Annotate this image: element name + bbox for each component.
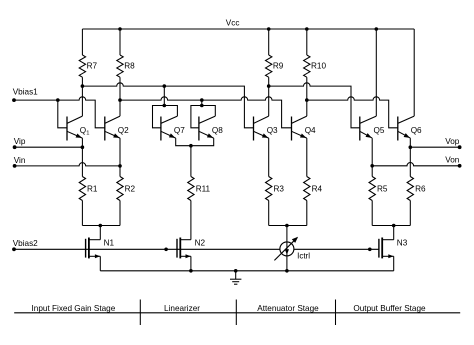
wire R6 bottom: [409, 201, 411, 226]
power rail Vcc wire: [82, 28, 414, 30]
junction R5R6 to N3 drain: [392, 224, 396, 228]
svg-text:R9: R9: [273, 62, 284, 71]
junction node B at Q8: [200, 98, 204, 102]
label Attenuator Stage: [257, 304, 319, 313]
junction node A at Q7: [163, 84, 167, 88]
stage divider baseline: [14, 312, 460, 314]
junction Vop at Q6 emitter: [409, 145, 413, 149]
wire Vip to Q1 emitter: [15, 146, 83, 148]
wire Vop from Q6 emitter: [410, 146, 459, 148]
svg-text:Linearizer: Linearizer: [164, 304, 200, 313]
svg-text:R7: R7: [87, 62, 98, 71]
wire Q2 collector: [119, 100, 121, 116]
svg-text:Q8: Q8: [212, 126, 223, 135]
transistor Q5: [360, 116, 385, 140]
wire Vcc to R7: [81, 29, 83, 55]
junction Ictrl at common bus: [285, 269, 289, 273]
transistor Q8: [199, 116, 223, 140]
svg-text:Attenuator Stage: Attenuator Stage: [257, 304, 319, 313]
terminal dot Vop: [458, 145, 462, 149]
wire Q6 emitter to R6: [409, 138, 411, 176]
wire node B bus (R8/Q2 collector to Q4 base): [120, 97, 292, 128]
svg-text:Vcc: Vcc: [226, 19, 240, 28]
svg-text:R8: R8: [124, 62, 135, 71]
wire node A bus (R7/Q1 collector to Q3 base): [82, 83, 253, 128]
label Vbias1: [13, 87, 38, 96]
wire N3 source to common: [393, 256, 395, 271]
wire N2 source to common: [190, 256, 192, 271]
svg-text:Output Buffer Stage: Output Buffer Stage: [353, 304, 426, 313]
junction node B at R8: [118, 98, 122, 102]
svg-text:R10: R10: [311, 62, 326, 71]
wire N1 drain: [99, 226, 101, 240]
resistor R7: [79, 55, 97, 77]
wire Q1 emitter to R1: [81, 138, 83, 176]
wire Q7 collector-base loop: [153, 106, 178, 128]
resistor R1: [79, 177, 98, 201]
wire Vbias2 bus right: [294, 248, 379, 250]
transistor Q3: [254, 116, 279, 140]
svg-text:N2: N2: [195, 239, 206, 248]
svg-text:Q2: Q2: [118, 126, 129, 135]
wire Vbias1 to Q1 base: [58, 100, 67, 128]
resistor R3: [266, 177, 285, 201]
terminal dot Vin: [13, 164, 17, 168]
wire Q1 collector: [81, 86, 83, 116]
terminal dot Von: [458, 164, 462, 168]
junction R1R2 to N1 drain: [99, 224, 103, 228]
wire common source bus: [100, 270, 393, 272]
svg-text:R4: R4: [312, 185, 323, 194]
wire R3 bottom: [268, 201, 270, 226]
wire R2 bottom: [119, 201, 121, 226]
wire Q3 emitter to R3: [268, 138, 270, 176]
resistor R2: [117, 177, 136, 201]
wire R3-R4 join: [269, 225, 307, 227]
wire Q4 collector: [306, 100, 308, 116]
transistor Q6: [398, 116, 422, 140]
wire Q2 emitter to R2: [119, 138, 121, 176]
wire Q8 emitter: [191, 138, 214, 146]
junction on Vcc rail at R8: [118, 27, 122, 31]
label Input Fixed Gain Stage: [32, 304, 116, 313]
junction on Vcc rail at R10: [305, 27, 309, 31]
wire N1 source to common: [99, 256, 101, 271]
wire Vcc to R9: [268, 29, 270, 55]
svg-text:Q6: Q6: [411, 126, 422, 135]
junction Vbias2 near N3: [368, 248, 372, 252]
terminal dot Vip: [13, 145, 17, 149]
wire R10 down to node D: [306, 77, 308, 100]
wire Q5 emitter to R5: [371, 138, 373, 176]
resistor R6: [407, 177, 426, 201]
wire node D bus (R10/Q4 collector to Q6 base): [307, 97, 398, 128]
svg-text:N1: N1: [104, 239, 115, 248]
wire node A drop to Q7: [163, 86, 165, 105]
svg-text:R3: R3: [274, 185, 285, 194]
label Vin: [14, 156, 26, 165]
wire emitter node to R11: [190, 146, 192, 177]
svg-text:Ictrl: Ictrl: [297, 252, 310, 261]
junction Q8 loop top: [200, 104, 204, 108]
svg-text:R5: R5: [377, 185, 388, 194]
wire R5 bottom: [371, 201, 373, 226]
label Vop: [445, 137, 460, 146]
svg-text:R1: R1: [87, 185, 98, 194]
stage divider 1: [139, 300, 141, 326]
wire Q7 emitter: [176, 138, 191, 146]
label Vcc: [226, 19, 240, 28]
resistor R8: [117, 55, 135, 77]
svg-text:Vip: Vip: [14, 137, 26, 146]
stage divider 2: [235, 300, 237, 326]
wire N3 drain: [393, 226, 395, 240]
wire Q8 collector-base loop: [191, 106, 215, 128]
transistor Q4: [292, 116, 317, 140]
ground: [230, 271, 241, 284]
resistor R9: [266, 55, 284, 77]
svg-text:Vbias2: Vbias2: [13, 239, 38, 248]
transistor N2: [177, 238, 206, 259]
wire R4 bottom: [306, 201, 308, 226]
junction R3R4 to Ictrl: [285, 224, 289, 228]
resistor R5: [369, 177, 388, 201]
svg-text:R2: R2: [125, 185, 136, 194]
svg-text:Q3: Q3: [267, 126, 278, 135]
label Vip: [14, 137, 26, 146]
junction Vip at Q1 emitter: [81, 145, 85, 149]
label Vbias2: [13, 239, 38, 248]
svg-text:Vop: Vop: [445, 137, 460, 146]
junction node A at R7: [81, 84, 85, 88]
transistor Q1: [67, 116, 89, 140]
junction ground at common bus: [234, 269, 238, 273]
wire R11 to N2 drain: [190, 201, 192, 240]
svg-text:Vbias1: Vbias1: [13, 87, 38, 96]
junction N2 source at common bus: [189, 269, 193, 273]
junction Q7/Q8 emitters to R11: [189, 144, 193, 148]
wire R8 down to node B: [119, 77, 121, 100]
wire Vcc to Q6 collector: [413, 29, 415, 116]
junction node D at R10: [305, 98, 309, 102]
junction Von at Q5 emitter: [370, 164, 374, 168]
wire R1-R2 join: [82, 225, 120, 227]
transistor N1: [86, 238, 115, 259]
svg-text:R6: R6: [415, 185, 426, 194]
wire Vbias2 bus left: [14, 248, 280, 250]
svg-text:Von: Von: [445, 155, 460, 164]
label Von: [445, 155, 460, 164]
svg-text:Q7: Q7: [174, 126, 185, 135]
wire Von from Q5 emitter: [372, 163, 459, 166]
wire R7 to node A: [81, 77, 83, 86]
transistor Q2: [105, 116, 129, 140]
wire Q3 collector: [268, 86, 270, 116]
stage divider 3: [335, 300, 337, 326]
svg-text:R11: R11: [196, 185, 211, 194]
wire node C bus (R9/Q3 collector to Q5 base): [269, 83, 360, 128]
resistor R4: [304, 177, 323, 201]
wire R9 to node C: [268, 77, 270, 86]
junction Q7 loop top: [163, 104, 167, 108]
terminal dot Vbias1: [12, 98, 16, 102]
label Linearizer: [164, 304, 200, 313]
current source Ictrl: [274, 237, 310, 261]
svg-text:1: 1: [86, 130, 89, 136]
terminal dot Vbias2: [12, 247, 16, 251]
wire Vcc to R10: [306, 29, 308, 55]
svg-text:Q5: Q5: [374, 126, 385, 135]
wire Q4 emitter to R4: [306, 138, 308, 176]
wire Vcc to Q5 collector: [375, 29, 377, 116]
junction on Vcc rail at R9: [267, 27, 271, 31]
wire Ictrl branch: [286, 226, 288, 271]
resistor R11: [188, 177, 211, 201]
wire R1 bottom: [81, 201, 83, 226]
wire R5-R6 join: [372, 225, 410, 227]
wire Vcc to R8: [119, 29, 121, 55]
junction on Vcc rail at Q5 collector: [375, 27, 379, 31]
svg-text:Input Fixed Gain Stage: Input Fixed Gain Stage: [32, 304, 116, 313]
label Output Buffer Stage: [353, 304, 426, 313]
transistor Q7: [161, 116, 185, 140]
junction Vbias2 near N2: [164, 248, 168, 252]
svg-text:N3: N3: [397, 239, 408, 248]
wire node B drop to Q8: [201, 100, 203, 105]
svg-text:Vin: Vin: [14, 156, 26, 165]
junction Vin at Q2 emitter: [118, 164, 122, 168]
junction Vbias1 at Q1 base tap: [56, 98, 60, 102]
resistor R10: [304, 55, 327, 77]
svg-text:Q4: Q4: [305, 126, 316, 135]
transistor N3: [379, 238, 408, 259]
wire Vbias1 to Q2 base: [14, 97, 105, 128]
wire Vin to Q2 emitter: [15, 163, 120, 166]
junction node C at R9: [267, 84, 271, 88]
